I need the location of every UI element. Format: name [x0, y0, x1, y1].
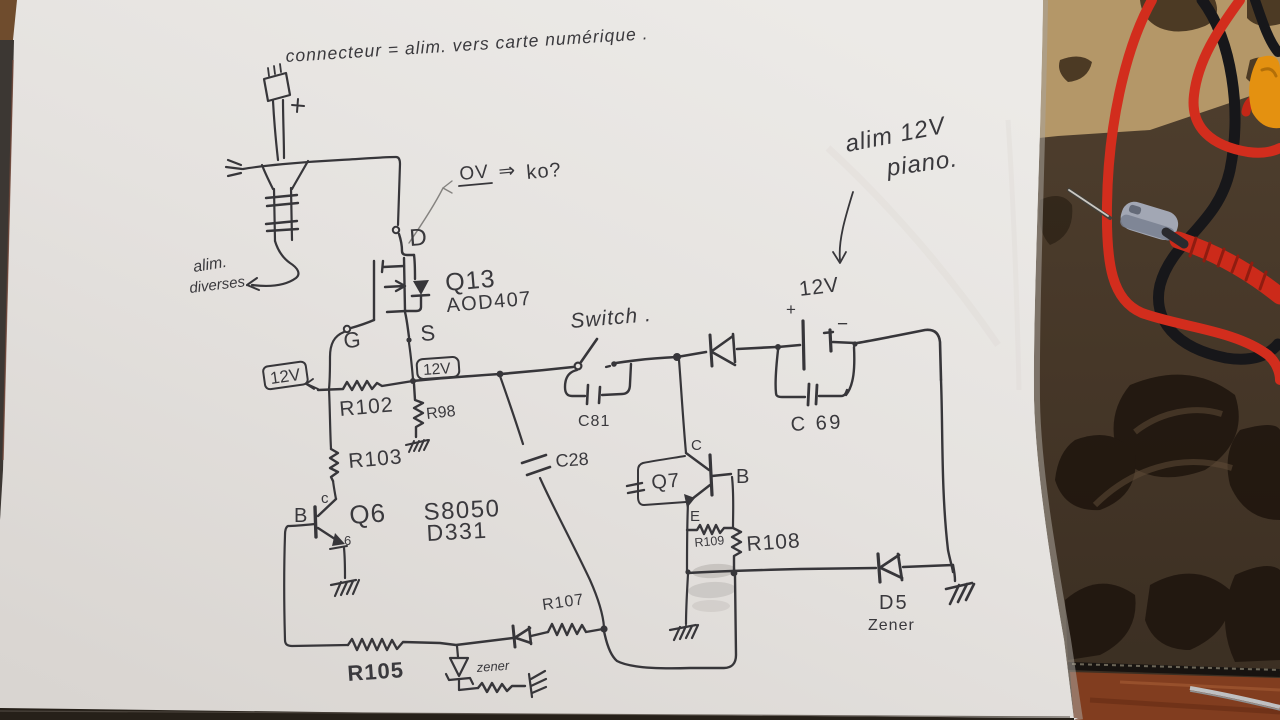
- svg-text:R102: R102: [338, 393, 394, 421]
- wire: E rail to ground: [686, 574, 688, 624]
- wire: battery to right rail: [857, 330, 941, 380]
- svg-text:D331: D331: [426, 517, 488, 546]
- alim diverses branch: funnel: [262, 161, 308, 241]
- resistor squiggle after zener: [478, 683, 525, 692]
- black cable loop: [1158, 0, 1278, 359]
- mosfet Q13 drain lead: [399, 234, 414, 255]
- wire: bottom horizontal to D5: [688, 568, 876, 573]
- capacitor C81 across switch: [565, 364, 631, 430]
- resistor R102: [318, 381, 413, 421]
- svg-text:C28: C28: [555, 449, 589, 471]
- labels + - 12V: [786, 273, 848, 335]
- wire: branch curve to alim diverses arrow: [252, 241, 298, 286]
- svg-text:⇒: ⇒: [498, 160, 517, 183]
- svg-text:6: 6: [344, 533, 351, 548]
- soft creases: [828, 120, 1019, 390]
- node C28 tap: [497, 371, 504, 378]
- switch SW1: [575, 339, 617, 369]
- labels Q6 S8050 D331 B E: [294, 495, 501, 548]
- ground fork bottom: [529, 671, 546, 697]
- tan fabric top right: [1020, 0, 1280, 140]
- wire: G down to left rail: [329, 332, 344, 389]
- svg-text:+: +: [786, 300, 796, 319]
- svg-text:R103: R103: [347, 445, 403, 473]
- erased smudge: [688, 562, 737, 612]
- resistor R98 vertical: [414, 384, 457, 437]
- capacitor pair in branch: [266, 195, 298, 231]
- resistor R108 vertical: [732, 528, 801, 571]
- resistor R107: [541, 591, 603, 635]
- ground right: [946, 583, 974, 604]
- node switch-diode junction: [673, 353, 681, 361]
- svg-text:Zener: Zener: [868, 617, 915, 634]
- svg-text:D: D: [409, 224, 428, 252]
- needle probe tip: [1069, 190, 1110, 218]
- dark fabric base right side: [1000, 0, 1280, 720]
- connector J1: [264, 64, 290, 160]
- node battery junction: [775, 344, 781, 350]
- svg-text:G: G: [343, 327, 362, 353]
- svg-text:12V: 12V: [798, 273, 841, 301]
- svg-text:R108: R108: [746, 529, 802, 556]
- gate lead and node G: [351, 320, 374, 328]
- bottom dark strip: [0, 708, 1074, 720]
- arrow note to battery: [833, 192, 853, 263]
- ground below Q6 emitter: [331, 580, 359, 596]
- node S-bus junction: [410, 378, 416, 384]
- transistor Q7: [684, 453, 731, 508]
- mosfet Q13 body: [374, 258, 406, 320]
- ground fork upper-left: [226, 160, 242, 176]
- labels Q7 B E: [651, 466, 750, 525]
- edge shadow: [1035, 0, 1078, 720]
- wire: Q6 emitter down: [344, 548, 345, 578]
- svg-text:zener: zener: [475, 658, 510, 675]
- node R108 bottom junction: [731, 570, 738, 577]
- zener DZ1 branch down: [446, 646, 510, 690]
- diode D6 bottom: [513, 626, 548, 647]
- source lead and node S: [405, 312, 409, 337]
- wire: switch to diode junction: [616, 357, 677, 363]
- wire: S to bus node: [409, 343, 413, 379]
- arrow into 12V left box: [306, 379, 318, 389]
- label G: [343, 327, 362, 353]
- svg-text:Q7: Q7: [651, 470, 681, 494]
- wire: left rail G to R103: [329, 389, 331, 449]
- dark fabric leaves: [1039, 196, 1280, 662]
- labels D5 Zener: [868, 592, 915, 634]
- svg-text:B: B: [736, 466, 749, 488]
- top-left wood corner: [0, 0, 17, 46]
- wire: R103 to Q6 collector: [333, 481, 336, 499]
- note OV => ko?: [459, 159, 563, 185]
- wire: Q7 base down: [732, 477, 733, 528]
- wire: Q7 emitter down: [687, 503, 688, 572]
- blob outline around Q7: [638, 456, 686, 505]
- red cable big loop: [1107, 0, 1280, 380]
- zener D5: [878, 554, 953, 582]
- svg-text:Q6: Q6: [348, 497, 387, 529]
- title note: connecteur = alim. vers carte numerique: [285, 23, 649, 66]
- label Q13 AOD407: [444, 265, 533, 317]
- node bottom junction: [600, 625, 607, 632]
- svg-text:OV: OV: [459, 161, 490, 184]
- capacitor C28 diagonal branch: [500, 376, 604, 627]
- grey-blue connector: [1117, 199, 1181, 244]
- net label 12V left box: [263, 361, 309, 390]
- underline OV: [459, 183, 492, 186]
- svg-text:ko?: ko?: [526, 159, 563, 184]
- svg-text:12V: 12V: [423, 360, 452, 379]
- node E-rail bottom junction: [685, 569, 690, 574]
- fabric hem: [1068, 666, 1280, 673]
- wire: bottom loop from junction up right rail: [604, 576, 736, 668]
- node D circle: [393, 227, 399, 233]
- svg-text:S: S: [420, 320, 436, 346]
- node C69 right tap: [852, 341, 857, 346]
- wire: right rail joins ground: [953, 565, 955, 581]
- label D: [409, 224, 428, 252]
- diode D4 after switch: [677, 334, 776, 366]
- svg-text:C 69: C 69: [790, 411, 843, 436]
- battery B1 12V: [778, 321, 855, 369]
- svg-text:E: E: [690, 508, 700, 525]
- transistor Q6: [315, 499, 347, 549]
- svg-text:B: B: [294, 505, 307, 527]
- label alim. diverses: [188, 254, 250, 297]
- svg-text:c: c: [321, 490, 329, 507]
- wire: right rail down: [941, 380, 953, 572]
- red ribbed probe handle: [1178, 240, 1280, 296]
- label S: [420, 320, 436, 346]
- red cable upper right: [1194, 0, 1280, 153]
- svg-text:C81: C81: [578, 413, 610, 430]
- resistor R109: [687, 525, 732, 550]
- net label 12V right box: [416, 357, 459, 380]
- note alim 12V piano: [843, 112, 960, 182]
- arrowhead alim diverses: [247, 278, 259, 290]
- svg-text:R109: R109: [694, 533, 725, 550]
- wooden table bottom right: [1070, 672, 1280, 720]
- ground below R98: [406, 440, 429, 452]
- svg-text:C: C: [691, 437, 702, 454]
- pencil arrow to D: [409, 181, 452, 243]
- svg-text:R105: R105: [347, 657, 405, 686]
- svg-text:R98: R98: [425, 403, 456, 423]
- wire: bus node to switch: [413, 367, 573, 381]
- resistor R105: [347, 638, 513, 686]
- wire: fork to top bus and corner down to D: [243, 157, 400, 225]
- plus label at connector: [292, 99, 304, 112]
- ground below Q7 emitter rail: [670, 625, 698, 640]
- mosfet Q13 body diode: [406, 255, 429, 311]
- capacitor C69: [776, 347, 855, 436]
- wire: junction down to Q7 collector: [679, 360, 686, 453]
- svg-text:−: −: [837, 314, 848, 335]
- resistor R103 vertical: [330, 445, 403, 481]
- left dark wedge: [0, 40, 14, 520]
- svg-text:D5: D5: [879, 592, 909, 614]
- grey cable on wood: [1190, 688, 1280, 707]
- orange item top right: [1249, 56, 1280, 128]
- capacitor at Q7 left: [627, 483, 644, 493]
- wire: Q6 base to left rail and down: [284, 524, 348, 646]
